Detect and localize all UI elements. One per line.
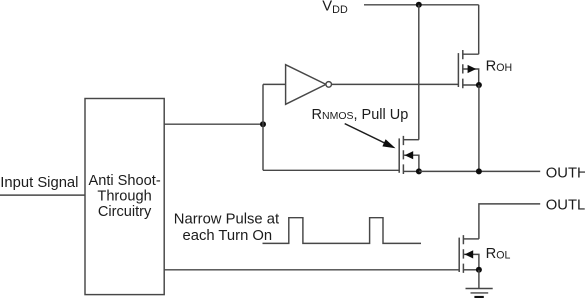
label Input Signal bbox=[0, 175, 78, 191]
wire inverter output to Q1 gate bbox=[332, 83, 459, 85]
svg-text:Narrow Pulse at: Narrow Pulse at bbox=[174, 212, 279, 228]
annotation arrow pointing to Q2 bbox=[345, 124, 396, 149]
svg-text:Circuitry: Circuitry bbox=[98, 204, 152, 220]
svg-text:RNMOS, Pull Up: RNMOS, Pull Up bbox=[312, 107, 409, 123]
svg-text:OUTH: OUTH bbox=[546, 166, 585, 182]
block U1 Anti Shoot-Through Circuitry bbox=[85, 99, 164, 295]
wire box bottom output to Q3 gate bbox=[164, 269, 459, 271]
waveform narrow pulses bbox=[263, 218, 422, 244]
svg-text:OUTL: OUTL bbox=[546, 198, 585, 214]
svg-text:Input Signal: Input Signal bbox=[0, 175, 78, 191]
wire OUTL to Q3 drain bbox=[479, 204, 540, 239]
node Q3 source junction bbox=[476, 267, 482, 273]
label ROL bbox=[486, 246, 511, 262]
wire node A riser to inverter input and down to Q2 gate bbox=[262, 84, 264, 170]
transistor Q3 ROL (pull-down device) bbox=[459, 235, 479, 273]
label VDD bbox=[322, 0, 348, 16]
wire VDD junction to Q2 drain bbox=[418, 5, 420, 140]
svg-text:ROL: ROL bbox=[486, 246, 511, 262]
label OUTL bbox=[546, 198, 585, 214]
wire Q3 source to ground bbox=[478, 270, 480, 289]
node A junction bbox=[260, 121, 266, 127]
svg-text:each Turn On: each Turn On bbox=[183, 228, 273, 244]
label RNMOS, Pull Up bbox=[312, 107, 409, 123]
wire VDD to Q1 drain bbox=[478, 5, 480, 54]
transistor Q1 ROH (pull-up device) bbox=[458, 50, 479, 88]
svg-text:Through: Through bbox=[97, 189, 151, 205]
wire input signal to box bbox=[0, 194, 85, 196]
svg-text:ROH: ROH bbox=[486, 59, 512, 75]
wire node A to Q2 gate bbox=[263, 169, 399, 171]
transistor Q2 RNMOS pull-up bbox=[399, 136, 419, 174]
node junction on VDD rail bbox=[416, 2, 422, 8]
label Narrow Pulse at each Turn On bbox=[174, 212, 279, 244]
wire VDD rail bbox=[364, 4, 479, 6]
wire Q1 source down to OUTH rail bbox=[478, 85, 480, 171]
node Q1 source junction bbox=[476, 82, 482, 88]
wire box output to node A bbox=[164, 123, 263, 125]
wire OUTH rail bbox=[419, 170, 540, 172]
svg-text:Anti Shoot-: Anti Shoot- bbox=[88, 173, 160, 189]
wire inverter input stub bbox=[263, 83, 286, 85]
label OUTH bbox=[546, 166, 585, 182]
node Q2 source junction bbox=[416, 168, 422, 174]
ground bbox=[466, 289, 493, 298]
node OUTH junction bbox=[476, 168, 482, 174]
label ROH bbox=[486, 59, 512, 75]
inverter U2 bbox=[286, 65, 332, 105]
